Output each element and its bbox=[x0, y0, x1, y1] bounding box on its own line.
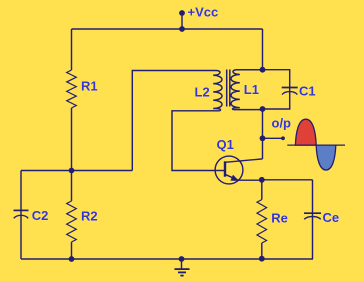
capacitor C1 curved plate bbox=[282, 92, 297, 95]
inductor L2 winding bbox=[213, 71, 222, 111]
ground bar 2 bbox=[178, 271, 186, 273]
wire emitter node to Re bbox=[261, 180, 263, 200]
transistor Q1 emitter lead bbox=[225, 174, 262, 180]
wire o/p stub bbox=[263, 137, 284, 139]
svg-text:Re: Re bbox=[271, 211, 288, 226]
svg-text:L2: L2 bbox=[195, 84, 210, 99]
wire Ce branch vertical bbox=[312, 180, 314, 259]
wire feedback riser L2 top bbox=[132, 71, 216, 171]
inductor L1 winding bbox=[231, 70, 263, 110]
junction dot emitter node bbox=[259, 177, 265, 183]
capacitor C2 curved plate bbox=[14, 215, 28, 218]
junction dot R1 R2 base node bbox=[69, 168, 75, 174]
resistor R1 bbox=[67, 70, 77, 108]
wire left horizontal to C2 branch bbox=[21, 170, 132, 172]
svg-text:C2: C2 bbox=[32, 208, 49, 223]
waveform axis bbox=[287, 144, 345, 146]
wire top supply rail bbox=[72, 28, 263, 30]
junction dot o/p node bbox=[260, 135, 266, 141]
wire L2 bottom to base bbox=[172, 111, 224, 171]
waveform positive half red bbox=[295, 119, 316, 145]
junction dot tank bottom bbox=[260, 106, 266, 112]
terminal dot o/p end bbox=[281, 136, 285, 140]
transistor Q1 collector lead bbox=[225, 159, 263, 162]
svg-text:+Vcc: +Vcc bbox=[188, 5, 219, 20]
waveform negative half blue bbox=[316, 145, 336, 170]
wire R1 bottom to base node bbox=[71, 108, 73, 171]
wire tank node down to collector bbox=[262, 109, 264, 159]
wire C2 branch vertical bbox=[20, 171, 22, 260]
svg-text:o/p: o/p bbox=[272, 116, 292, 131]
transistor Q1 base bar bbox=[224, 161, 226, 176]
svg-text:C1: C1 bbox=[299, 84, 316, 99]
transformer core line right bbox=[229, 70, 231, 107]
wire R2 bottom to ground rail bbox=[71, 242, 73, 259]
transistor Q1 emitter arrowhead bbox=[230, 175, 239, 181]
ground bar 3 bbox=[180, 275, 183, 277]
junction dot Re ground bbox=[259, 256, 265, 262]
capacitor C1 top plate bbox=[282, 87, 298, 89]
wire C1 bottom to tank node bbox=[263, 88, 290, 109]
svg-text:Q1: Q1 bbox=[217, 137, 234, 152]
svg-text:Ce: Ce bbox=[323, 210, 340, 225]
junction dot Vcc rail bbox=[179, 26, 185, 32]
svg-text:R2: R2 bbox=[81, 209, 98, 224]
resistor R2 bbox=[67, 201, 77, 242]
wire Vcc terminal lead bbox=[181, 13, 183, 29]
transistor Q1 body circle bbox=[215, 156, 243, 184]
transformer core line left bbox=[226, 70, 228, 107]
junction dot tank top bbox=[260, 67, 266, 73]
wire Re bottom to ground rail bbox=[261, 243, 263, 259]
wire emitter node rail to Ce bbox=[262, 179, 313, 181]
wire bottom ground rail bbox=[21, 258, 313, 260]
wire tank top to C1 bbox=[263, 70, 290, 88]
junction dot ground center bbox=[179, 256, 185, 262]
svg-text:L1: L1 bbox=[244, 82, 259, 97]
capacitor Ce curved plate bbox=[304, 217, 321, 220]
wire L1 bottom to tank node bbox=[233, 109, 262, 111]
capacitor Ce top plate bbox=[304, 212, 321, 214]
terminal dot +Vcc bbox=[179, 10, 185, 16]
svg-text:R1: R1 bbox=[81, 79, 98, 94]
wire left branch to R1 bbox=[71, 29, 73, 70]
junction dot R2 ground bbox=[69, 256, 75, 262]
ground stem bbox=[181, 259, 183, 269]
wire top rail right drop bbox=[262, 29, 264, 70]
ground bar 1 bbox=[175, 268, 190, 270]
resistor Re bbox=[257, 200, 267, 243]
capacitor C2 top plate bbox=[14, 209, 29, 211]
wire base node to R2 bbox=[71, 171, 73, 202]
